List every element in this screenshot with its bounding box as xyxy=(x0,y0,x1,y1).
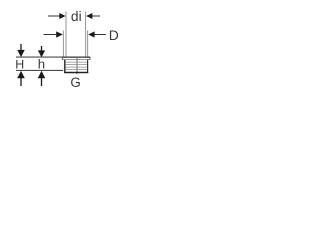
svg-text:h: h xyxy=(38,57,45,72)
svg-text:di: di xyxy=(71,9,82,24)
svg-text:D: D xyxy=(109,27,119,43)
svg-text:H: H xyxy=(15,58,24,72)
svg-text:G: G xyxy=(70,75,80,90)
